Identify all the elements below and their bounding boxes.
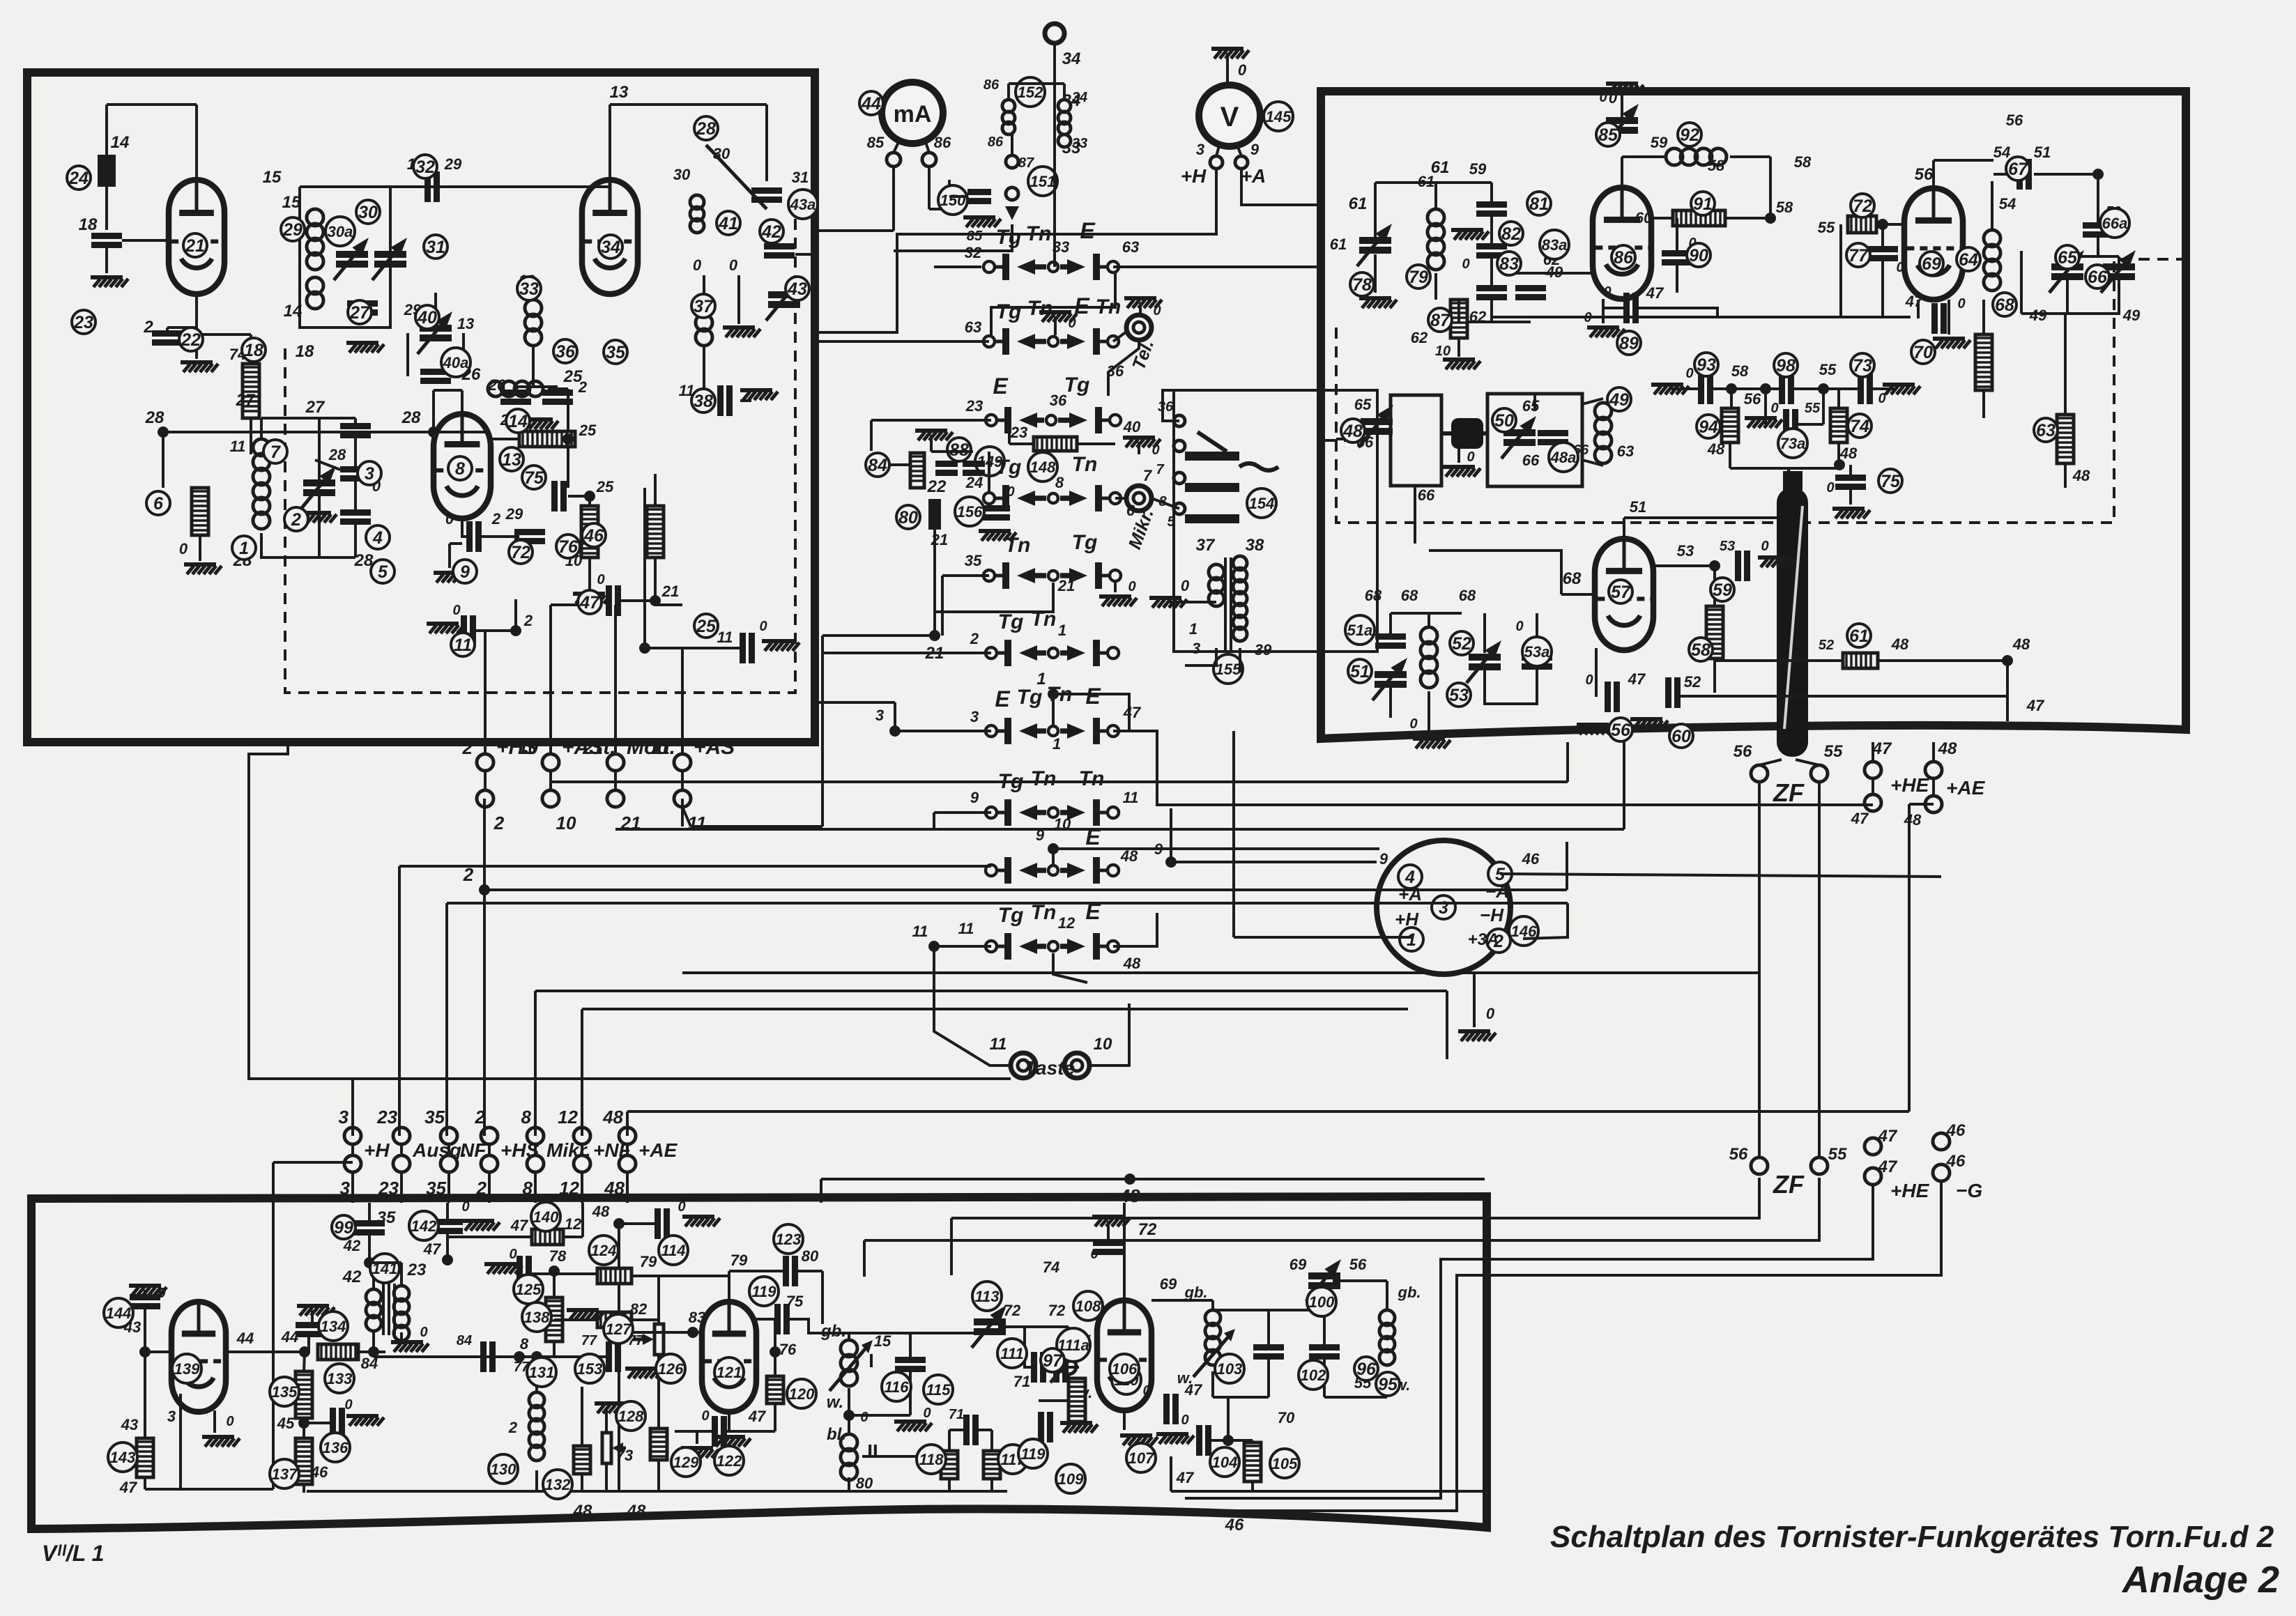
- switch row6 (Tg/Tn) right bar: [1093, 640, 1100, 666]
- svg-text:Schaltplan des Tornister-Funkg: Schaltplan des Tornister-Funkgerätes Tor…: [1550, 1520, 2274, 1554]
- variable capacitor 31: [374, 251, 406, 258]
- junction 43: [139, 1346, 151, 1357]
- svg-text:46: 46: [1225, 1516, 1244, 1534]
- svg-text:2: 2: [143, 318, 153, 337]
- svg-text:113: 113: [974, 1288, 999, 1305]
- switch row8 (Tg/Tn - Tn) pivot: [1048, 808, 1058, 817]
- coil 130: [529, 1392, 544, 1408]
- svg-text:124: 124: [591, 1242, 617, 1259]
- switch row8 (Tg/Tn - Tn) left terminal: [986, 807, 997, 818]
- wire down to res58: [1713, 566, 1716, 606]
- row1 left wire 32: [934, 266, 981, 268]
- switch row5 (Tn - Tg) pivot: [1048, 571, 1058, 580]
- +H feed from transmitter box: [249, 742, 353, 1079]
- svg-text:74: 74: [1850, 417, 1869, 436]
- svg-text:156: 156: [957, 503, 983, 521]
- ground below 78: [1359, 296, 1391, 300]
- riser 9: [1170, 808, 1172, 862]
- Tel gnd lead: [1139, 302, 1142, 315]
- plug connector 146: [1377, 840, 1510, 974]
- svg-text:107: 107: [1128, 1449, 1155, 1467]
- bus: [862, 1455, 937, 1458]
- resistor 140: [532, 1229, 563, 1245]
- coil 14: [488, 381, 503, 397]
- tube 8 (VFO): [434, 414, 491, 518]
- switch row8 (Tg/Tn - Tn) left arrow: [1033, 810, 1046, 815]
- wire cap23 to tube21 grid: [122, 239, 169, 242]
- svg-text:25: 25: [563, 367, 583, 386]
- VFO tank top lead: [260, 418, 263, 439]
- coil49 top link: [1582, 399, 1603, 404]
- 48 column down: [618, 1224, 620, 1491]
- terminal lead +HS: [484, 742, 487, 754]
- +AE jog: [1909, 803, 1934, 806]
- row6 left wire: [822, 652, 991, 654]
- switch row9 (E) right arrow: [1060, 868, 1071, 873]
- ground above Tel jack: [1124, 296, 1156, 300]
- drop from box2 a: [1566, 742, 1569, 782]
- svg-text:50: 50: [1494, 411, 1514, 431]
- junction 2 bottom: [510, 625, 521, 636]
- wire tube69 to res68: [1982, 300, 1985, 334]
- capacitor 83a: [1515, 285, 1546, 291]
- wire res138 to res127: [554, 1318, 597, 1321]
- svg-text:+AE: +AE: [1946, 777, 1986, 799]
- coil top lead: [1428, 613, 1430, 627]
- relay enclosure outline: [1174, 390, 1377, 652]
- svg-text:Tg: Tg: [996, 456, 1022, 479]
- svg-text:125: 125: [516, 1281, 542, 1298]
- switch row3 (E - Tg) pivot: [1046, 415, 1056, 425]
- svg-text:2: 2: [523, 612, 533, 629]
- svg-text:0: 0: [226, 1414, 234, 1429]
- terminal Mikr. lower: [527, 1155, 544, 1172]
- riser 47: [1232, 731, 1235, 937]
- ref 59: [1710, 578, 1734, 601]
- cap144 down: [144, 1307, 146, 1352]
- capacitor 111 lower: [963, 1415, 970, 1445]
- ref 104: [1210, 1447, 1239, 1477]
- switch row3 (E - Tg) right link: [1099, 419, 1110, 422]
- tube106 anode wire: [1151, 1299, 1213, 1302]
- 55B drop in box3: [863, 1240, 866, 1277]
- svg-text:111: 111: [1000, 1345, 1023, 1362]
- res87 down: [1457, 338, 1460, 357]
- drop Mikr8: [534, 991, 537, 1136]
- svg-text:40: 40: [1123, 418, 1141, 436]
- ref 23: [72, 310, 95, 334]
- svg-text:76: 76: [779, 1341, 797, 1358]
- svg-text:0: 0: [461, 1199, 469, 1215]
- xfmr ground link: [1170, 601, 1216, 603]
- coil 92: [1666, 148, 1683, 165]
- switch row6 (Tg/Tn) left terminal: [986, 647, 997, 659]
- svg-text:63: 63: [965, 318, 981, 336]
- wire to res87: [1457, 300, 1460, 322]
- tank left: [1374, 183, 1377, 202]
- 56B drop in box3: [950, 1218, 953, 1275]
- wire 21 down: [933, 557, 936, 636]
- gnd to cap134: [311, 1310, 314, 1325]
- connector pin 1: [1400, 928, 1423, 951]
- ref 142: [409, 1211, 438, 1240]
- svg-text:89: 89: [1619, 334, 1639, 353]
- xfmr141 top link: [369, 1261, 401, 1264]
- resistor 74: [1830, 408, 1847, 443]
- svg-text:Tg: Tg: [998, 610, 1024, 633]
- res137 down: [303, 1484, 305, 1493]
- ref 124: [589, 1236, 618, 1265]
- ref 85: [1596, 123, 1620, 146]
- row3 left wire: [871, 419, 991, 422]
- svg-text:47: 47: [1851, 810, 1869, 827]
- switch row4 (Tg - Tn) left terminal: [984, 493, 995, 504]
- wire below resistor 18: [250, 418, 252, 454]
- svg-text:143: 143: [110, 1449, 136, 1466]
- row1 to row2 jog wire: [991, 273, 1115, 336]
- contact 33: [1058, 134, 1071, 147]
- relay contact terminal: [1174, 472, 1185, 484]
- ref 75: [522, 465, 546, 489]
- switch row1 (Tg/Tn - E) right arrow: [1060, 264, 1071, 270]
- dashed VFO section boundary: [285, 216, 795, 693]
- svg-text:85: 85: [867, 134, 885, 151]
- wire to right tank: [1333, 1279, 1387, 1282]
- svg-text:+A: +A: [1398, 884, 1422, 905]
- svg-text:+AS: +AS: [694, 736, 735, 759]
- wire cap22: [167, 326, 197, 329]
- transformer 155 core: [1224, 557, 1227, 652]
- crystal lead 56: [1759, 760, 1782, 765]
- svg-text:95: 95: [1378, 1375, 1398, 1394]
- ref 51a: [1345, 615, 1375, 645]
- ref 133: [325, 1364, 354, 1393]
- ref 80: [896, 505, 920, 529]
- svg-text:3: 3: [970, 708, 979, 725]
- svg-text:93: 93: [1697, 355, 1716, 375]
- svg-text:0: 0: [1515, 619, 1523, 634]
- capacitor 125: [516, 1256, 523, 1286]
- switch row7 (E Tg Tn - E) left link: [997, 730, 1008, 733]
- ref 3: [358, 461, 381, 485]
- svg-text:56: 56: [1729, 1145, 1748, 1164]
- terminal 56 B: [1751, 1157, 1768, 1174]
- ground above 88: [915, 429, 947, 433]
- capacitor 12: [514, 529, 545, 535]
- capacitor 134: [296, 1322, 326, 1328]
- ref 113: [972, 1282, 1002, 1311]
- svg-text:0: 0: [1957, 296, 1965, 311]
- svg-text:+A: +A: [1241, 165, 1266, 187]
- bus 11 wire: [691, 825, 822, 828]
- ref 131: [527, 1357, 556, 1387]
- resistor 105: [1244, 1442, 1261, 1482]
- svg-text:83a: 83a: [1542, 236, 1568, 254]
- drop mid: [1446, 991, 1448, 1059]
- svg-text:31: 31: [792, 169, 809, 186]
- terminal 47 A2: [1865, 794, 1881, 811]
- capacitor 32: [424, 171, 431, 202]
- ref 118: [917, 1445, 946, 1474]
- svg-text:80: 80: [856, 1475, 873, 1492]
- wire cap4-cap5: [354, 479, 357, 513]
- junction 51: [2092, 169, 2104, 180]
- bottom bus 48: [307, 1490, 1007, 1493]
- svg-text:Anlage 2: Anlage 2: [2121, 1559, 2279, 1601]
- variable capacitor 30a: [336, 251, 368, 258]
- res129 down: [657, 1460, 660, 1491]
- switch row8 (Tg/Tn - Tn) right bar: [1093, 799, 1100, 826]
- svg-text:58: 58: [1708, 157, 1725, 174]
- ref 51: [1348, 659, 1372, 683]
- svg-text:12: 12: [565, 1215, 582, 1233]
- coil 103 arrow: [1193, 1334, 1231, 1377]
- ref 53a: [1522, 637, 1552, 666]
- wire to ground 9: [448, 544, 451, 568]
- switch row10 (Tg/Tn - E) right link: [1096, 945, 1108, 948]
- coil95 bottom: [1386, 1371, 1388, 1397]
- feed +ASt inside box: [549, 605, 552, 742]
- terminal drop +AE: [626, 1172, 629, 1203]
- connector pin 3: [1432, 895, 1455, 919]
- switch row6 (Tg/Tn) left arrow: [1033, 650, 1046, 656]
- svg-text:0: 0: [452, 603, 460, 618]
- svg-text:28: 28: [328, 446, 346, 463]
- res105 bottom lead: [1251, 1482, 1254, 1491]
- switch row7 (E Tg Tn - E) left arrow: [1033, 728, 1046, 734]
- svg-text:104: 104: [1212, 1454, 1238, 1471]
- wire down right of coil14: [567, 389, 569, 432]
- svg-text:3: 3: [340, 1178, 351, 1199]
- svg-text:28: 28: [145, 408, 164, 427]
- terminal Mod. upper: [607, 754, 624, 771]
- resistor 133: [318, 1344, 358, 1360]
- row5 pivot drop: [935, 583, 1053, 612]
- ground above voltmeter: [1211, 47, 1243, 51]
- coil I top lead: [848, 1333, 850, 1340]
- ground below resistor 6: [184, 562, 216, 567]
- svg-text:11: 11: [990, 1035, 1007, 1054]
- wire +H to connector: [1234, 936, 1411, 939]
- ref 31: [424, 235, 447, 259]
- terminal +AS lower: [674, 790, 691, 807]
- svg-text:0: 0: [923, 1406, 931, 1421]
- switch row3 (E - Tg) right bar: [1095, 407, 1102, 433]
- cap82-cap83: [1490, 256, 1493, 288]
- svg-text:48: 48: [1938, 739, 1957, 758]
- cap142 down: [446, 1231, 449, 1260]
- svg-text:52: 52: [1452, 634, 1471, 654]
- ref 123: [774, 1224, 803, 1254]
- bus wire y1396: [682, 971, 1759, 974]
- svg-text:72: 72: [1048, 1302, 1066, 1319]
- capacitor 131 element: [480, 1341, 487, 1372]
- ref 121: [714, 1357, 744, 1387]
- V terminal +A: [1235, 156, 1248, 169]
- wire to cap81: [1490, 183, 1493, 205]
- link down: [1227, 1397, 1230, 1440]
- ref 36: [553, 339, 577, 363]
- mA terminal 86: [922, 153, 936, 167]
- coil 29: [307, 209, 323, 226]
- capacitor 111b: [1053, 1352, 1059, 1383]
- ground tube139 cathode: [202, 1435, 234, 1439]
- ref 107: [1126, 1443, 1156, 1472]
- svg-text:21: 21: [185, 236, 205, 256]
- cap122 left wire: [675, 1430, 712, 1433]
- wire 40 loop right: [462, 333, 465, 376]
- svg-text:64: 64: [1959, 250, 1978, 270]
- svg-text:63: 63: [1617, 443, 1634, 460]
- svg-text:48: 48: [1342, 422, 1363, 441]
- svg-text:58: 58: [1691, 640, 1710, 660]
- svg-text:0: 0: [1585, 672, 1593, 688]
- svg-text:0: 0: [158, 1286, 165, 1301]
- wire 93-98: [1713, 387, 1780, 390]
- connector pin 2: [1487, 929, 1510, 953]
- ref 42: [760, 220, 783, 243]
- svg-text:72: 72: [511, 543, 530, 562]
- svg-text:48: 48: [2072, 467, 2090, 484]
- drop from box2 b: [1623, 742, 1625, 829]
- riser to row5 area: [821, 636, 824, 826]
- ref 126: [656, 1354, 685, 1383]
- svg-text:Tg: Tg: [1072, 531, 1098, 554]
- switch row2 (Tg/Tn - E Tn) left bar: [1002, 328, 1009, 355]
- svg-text:119: 119: [751, 1283, 776, 1300]
- ground below 43: [723, 325, 755, 330]
- junction 28 left: [158, 426, 169, 438]
- svg-text:30: 30: [673, 166, 691, 183]
- svg-text:8: 8: [455, 459, 465, 479]
- row10 left wire: [934, 945, 991, 948]
- wire 113 right: [998, 1325, 1025, 1328]
- wire varcap2 down: [318, 496, 321, 557]
- svg-text:8: 8: [523, 1178, 533, 1199]
- Taste jack left: [1011, 1053, 1036, 1078]
- svg-text:73: 73: [616, 1447, 633, 1464]
- svg-text:22: 22: [181, 330, 201, 350]
- junction 76: [770, 1346, 781, 1357]
- svg-text:55: 55: [1828, 1145, 1847, 1164]
- ground IFT: [894, 1419, 926, 1424]
- tank top wire: [300, 185, 460, 188]
- ground between caps 36/35: [521, 417, 553, 422]
- ref 8: [448, 456, 472, 480]
- svg-text:80: 80: [802, 1247, 819, 1265]
- wire 47 down: [1170, 1456, 1172, 1491]
- junction 58: [1765, 213, 1776, 224]
- 66 wire down from mixer: [1414, 486, 1416, 544]
- svg-text:14: 14: [508, 412, 528, 431]
- svg-text:41: 41: [718, 214, 738, 233]
- wire to 65: [2066, 256, 2069, 263]
- capacitor 144: [130, 1294, 160, 1300]
- capacitor 115: [895, 1357, 926, 1363]
- svg-text:11: 11: [454, 636, 472, 655]
- coil I to II link: [848, 1388, 850, 1434]
- mA terminal 85: [887, 153, 901, 167]
- connector pin 5: [1488, 862, 1512, 886]
- svg-text:94: 94: [1699, 417, 1718, 437]
- svg-text:Tg: Tg: [1064, 374, 1090, 397]
- svg-text:7: 7: [1143, 467, 1153, 484]
- svg-text:2: 2: [493, 813, 505, 833]
- contact 87: [1006, 155, 1018, 168]
- ref 86: [1612, 245, 1635, 269]
- svg-text:13: 13: [610, 83, 629, 102]
- crystal top lead: [1787, 468, 1790, 488]
- svg-text:0: 0: [179, 540, 188, 557]
- ref 120: [787, 1379, 816, 1408]
- antenna terminal: [1045, 24, 1064, 43]
- terminal +H upper: [344, 1128, 361, 1144]
- cap104 right: [1211, 1439, 1253, 1442]
- +AS link: [682, 807, 691, 826]
- svg-text:68: 68: [1995, 295, 2014, 315]
- svg-text:2: 2: [491, 510, 501, 528]
- svg-text:−G: −G: [1956, 1180, 1982, 1201]
- wire to cap77: [1881, 224, 1884, 249]
- terminal 55 B: [1811, 1157, 1828, 1174]
- ground left of cap 93: [1651, 383, 1683, 387]
- svg-text:86: 86: [988, 134, 1004, 150]
- wire to res94: [1730, 389, 1733, 408]
- svg-text:7: 7: [1156, 462, 1164, 477]
- ref 153: [575, 1354, 604, 1383]
- svg-text:48: 48: [1891, 636, 1909, 653]
- junction 21: [650, 595, 661, 606]
- wire cap125 to res124: [531, 1272, 597, 1275]
- mA lead left: [894, 138, 901, 153]
- ref 151: [1028, 167, 1057, 196]
- switch row3 (E - Tg) right arrow: [1058, 417, 1073, 423]
- wire to varcap 40: [434, 293, 437, 324]
- ref 154: [1247, 488, 1276, 518]
- svg-text:66: 66: [2088, 268, 2108, 287]
- svg-text:71: 71: [949, 1407, 964, 1422]
- svg-text:47: 47: [2026, 697, 2045, 714]
- svg-text:53a: 53a: [1524, 643, 1550, 661]
- svg-text:28: 28: [696, 119, 716, 139]
- ref 5: [371, 560, 395, 583]
- wire to 53a: [1536, 613, 1538, 657]
- svg-text:11: 11: [230, 438, 246, 455]
- svg-text:48: 48: [592, 1203, 610, 1220]
- svg-text:12: 12: [559, 1178, 579, 1199]
- ref 11: [451, 633, 475, 656]
- pot128 down: [605, 1463, 608, 1491]
- wire to cap150: [949, 195, 966, 198]
- terminal 47 B: [1865, 1138, 1881, 1155]
- svg-text:69: 69: [1289, 1256, 1307, 1273]
- svg-text:0: 0: [678, 1199, 685, 1215]
- wire from Taste right: [1089, 1003, 1129, 1065]
- ref 72: [1851, 194, 1874, 217]
- switch row10 (Tg/Tn - E) pivot: [1048, 941, 1058, 951]
- ref 116: [882, 1372, 911, 1401]
- cap122 right: [726, 1430, 775, 1433]
- wire gnd to 85: [1621, 88, 1623, 117]
- junction 44: [299, 1346, 310, 1357]
- coil 110a: [1061, 1332, 1076, 1348]
- svg-text:151: 151: [1030, 173, 1056, 190]
- svg-text:21: 21: [661, 583, 679, 600]
- drop +NF12: [581, 1009, 583, 1136]
- svg-text:0: 0: [1409, 716, 1417, 732]
- svg-text:78: 78: [1352, 275, 1372, 295]
- junction 78: [549, 1265, 560, 1277]
